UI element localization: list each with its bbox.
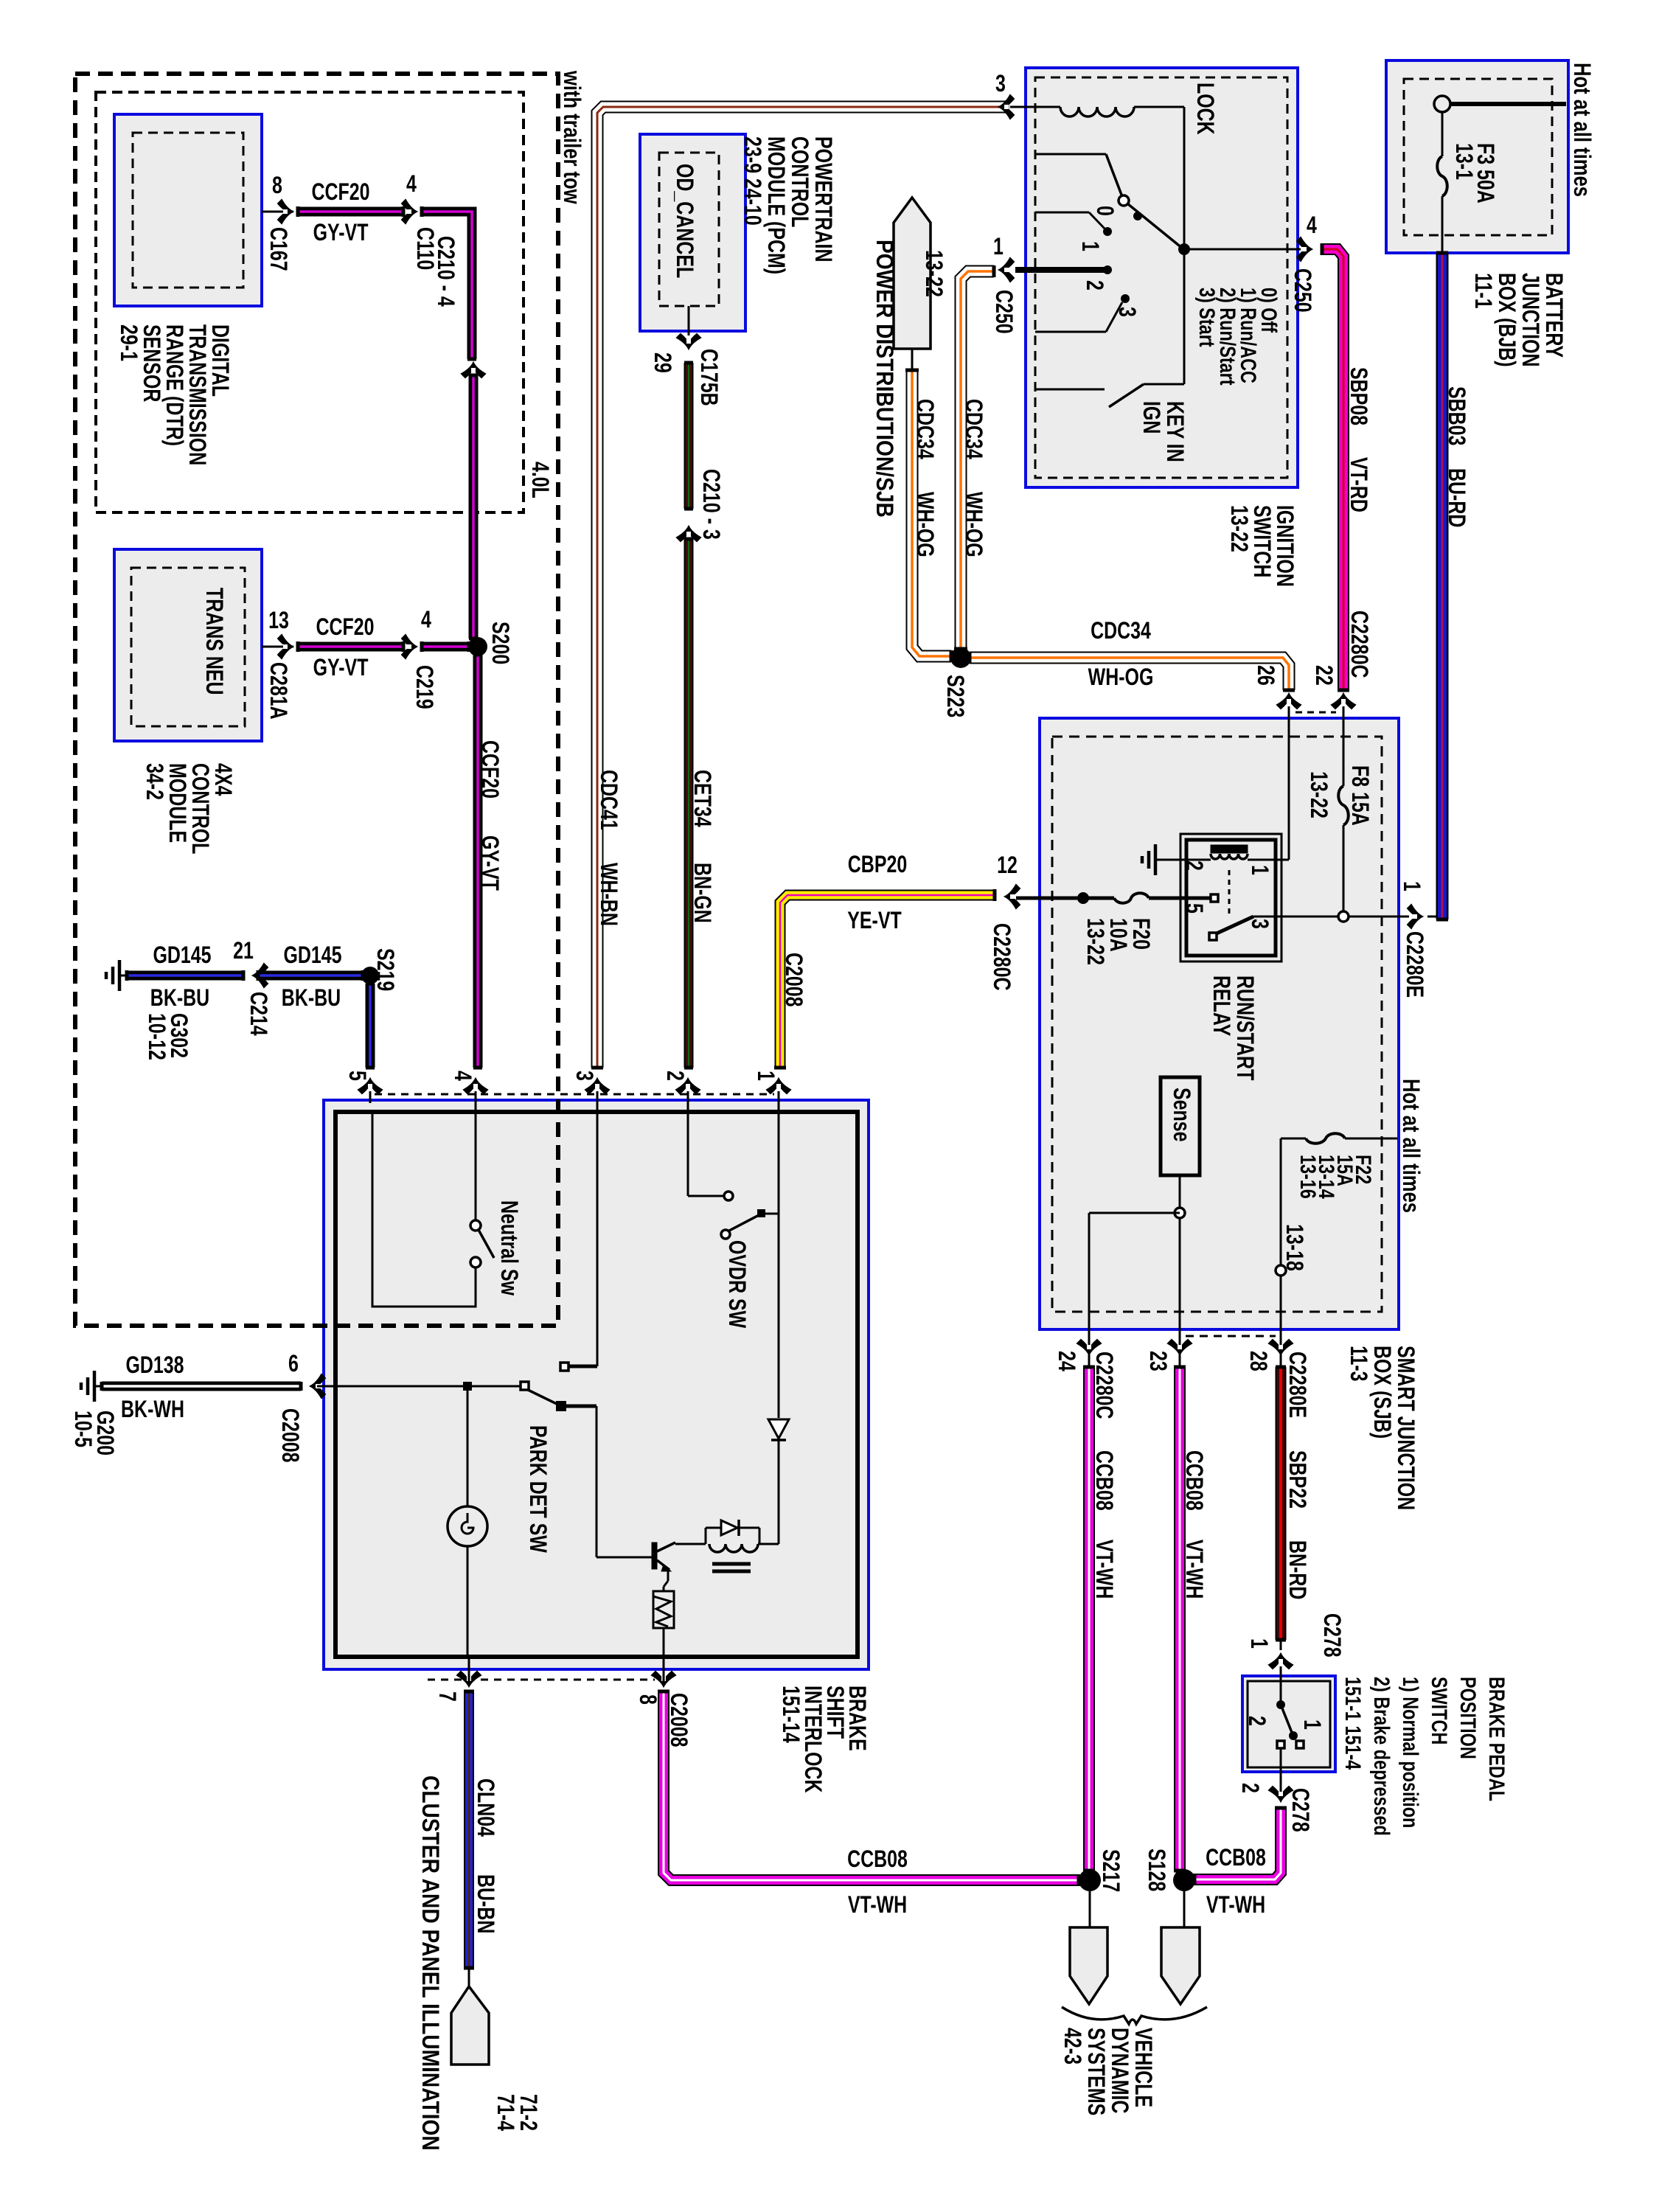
svg-text:BN-GN: BN-GN: [689, 863, 715, 923]
svg-text:1: 1: [1246, 865, 1273, 875]
dashed option box: 4.0L: [96, 92, 524, 512]
connector arrow C219: [402, 635, 417, 658]
ignition rotary wiper arm: [1106, 154, 1183, 248]
neutral switch arm: [479, 1230, 494, 1258]
svg-text:BATTERY: BATTERY: [1540, 273, 1567, 358]
wire GD145 BK-BU (C214 to S219): [258, 970, 363, 981]
svg-text:Hot at all times: Hot at all times: [1568, 63, 1594, 197]
svg-text:13-16: 13-16: [1295, 1155, 1320, 1199]
pin label 8: [634, 1694, 661, 1705]
svg-text:SMART JUNCTION: SMART JUNCTION: [1392, 1346, 1419, 1510]
wire: pin 5 into BSI: [369, 1091, 372, 1103]
svg-text:1: 1: [752, 1071, 779, 1081]
pin label 1 inside: [1298, 1719, 1325, 1730]
svg-text:2: 2: [1180, 860, 1207, 871]
svg-text:CDC34: CDC34: [960, 399, 987, 459]
lamp wire upper: [467, 1391, 469, 1507]
svg-text:C167: C167: [265, 227, 291, 271]
pin label 1: [1398, 881, 1425, 891]
wire label VT-WH: [848, 1892, 907, 1919]
svg-text:10-12: 10-12: [143, 1013, 170, 1060]
svg-text:13: 13: [268, 608, 289, 634]
svg-text:GY-VT: GY-VT: [313, 655, 369, 681]
connector label C214: [245, 992, 271, 1036]
blocking diode: [768, 1419, 789, 1440]
svg-text:C2280E: C2280E: [1401, 931, 1427, 998]
svg-text:6: 6: [288, 1351, 299, 1377]
position label 2: [1081, 280, 1107, 291]
wire: sense to pin 23: [1179, 1175, 1181, 1355]
svg-text:POSITION: POSITION: [1455, 1677, 1480, 1759]
label: Hot at all times: [1568, 63, 1594, 197]
connector label C278: [1318, 1613, 1345, 1658]
label: 13-22: [920, 250, 947, 297]
splice label S217: [1097, 1849, 1124, 1892]
svg-text:OD_CANCEL: OD_CANCEL: [671, 164, 698, 278]
wire: S217 tail: [1089, 1891, 1091, 1927]
wire: BPP pin 2 out: [1280, 1748, 1282, 1796]
relay pin label 1: [1246, 865, 1273, 875]
wire CDC34 WH-OG (S223 up to ignition C250 pin 1): [954, 265, 994, 649]
fuse label F3 50A 13-1: [1450, 143, 1498, 204]
svg-text:GD138: GD138: [125, 1352, 184, 1379]
fuse F8 15A: [1338, 786, 1349, 825]
legend: 0) Off 1) Run/ACC 2) Run/Start 3) Start: [1194, 288, 1281, 386]
wiper contact ring: [1119, 195, 1129, 206]
wire: pin 22 to fuse F8: [1343, 706, 1345, 786]
svg-text:BU-RD: BU-RD: [1443, 468, 1470, 527]
label: PARK DET SW: [524, 1425, 551, 1554]
connector arrow C210-4: [462, 363, 485, 378]
wire: resistor to pin 8: [663, 1628, 665, 1655]
wire label SBP22: [1284, 1450, 1310, 1509]
svg-text:Neutral Sw: Neutral Sw: [495, 1200, 522, 1296]
wire GD138 BK-WH (G200 to BSI pin 6): [102, 1382, 301, 1391]
svg-text:WH-OG: WH-OG: [1088, 664, 1154, 691]
label: POWERTRAIN CONTROL MODULE (PCM) 23-9 24-10: [739, 136, 836, 274]
resistor (solenoid dropping): [653, 1591, 674, 1628]
wire: fuse F3 to box edge: [1441, 196, 1444, 253]
svg-text:10-5: 10-5: [69, 1411, 96, 1447]
pin label 5: [344, 1071, 370, 1081]
label: BATTERY JUNCTION BOX (BJB) 11-1: [1470, 273, 1567, 367]
wire: arrow to SBB03: [1427, 916, 1437, 918]
wire label VT-WH: [1206, 1892, 1265, 1919]
park detect pivot contact: [521, 1382, 529, 1390]
svg-text:MODULE (PCM): MODULE (PCM): [762, 136, 789, 274]
wire: S128 tail: [1183, 1891, 1186, 1927]
BPP fixed contact 1: [1276, 1700, 1285, 1709]
svg-text:KEY IN: KEY IN: [1161, 401, 1188, 462]
connector arrow C2280C pin 24: [1077, 1340, 1101, 1354]
label: 4.0L: [526, 462, 553, 498]
wire: OVDR arm to solenoid line: [762, 1213, 779, 1215]
connector label C219: [411, 665, 437, 709]
wire: pin 6 feed line: [317, 1385, 522, 1388]
OVDR arm end contact: [757, 1209, 765, 1217]
wire: key-in switch feed: [1144, 249, 1184, 384]
svg-text:1: 1: [993, 234, 1004, 260]
connector arrow C2280C pin 22: [1332, 694, 1355, 709]
svg-text:13-22: 13-22: [1225, 505, 1252, 552]
connector label C250: [1289, 268, 1315, 313]
svg-text:VT-WH: VT-WH: [1180, 1540, 1207, 1599]
svg-text:34-2: 34-2: [141, 763, 167, 800]
label: 71-2 71-4: [492, 2094, 541, 2131]
park detect moving contact: [556, 1401, 566, 1411]
wire label CDC34: [1091, 618, 1151, 644]
svg-text:2: 2: [1081, 280, 1107, 291]
fuse label F22 15A 13-14 13-16: [1295, 1155, 1375, 1199]
svg-text:CCB08: CCB08: [1091, 1450, 1117, 1511]
splice S200: [468, 637, 487, 656]
splice pentagon (S217 feed): [1070, 1927, 1107, 2004]
wire: pin 4 into BSI: [475, 1091, 477, 1103]
wire: collector line to solenoid: [758, 1543, 779, 1545]
svg-text:with trailer tow: with trailer tow: [558, 70, 584, 204]
pin label 1: [752, 1071, 779, 1081]
svg-text:4.0L: 4.0L: [526, 462, 553, 498]
wire SBP22 BN-RD (pin 28 down to C278): [1276, 1367, 1286, 1640]
wire label CET34: [689, 770, 715, 827]
svg-text:CLN04: CLN04: [472, 1778, 498, 1837]
connector arrow C2280E pin 1: [1408, 905, 1422, 928]
wire label WH-OG: [1088, 664, 1154, 691]
svg-text:11-1: 11-1: [1470, 273, 1496, 309]
svg-text:C281A: C281A: [265, 662, 291, 720]
wire CCF20 GY-VT (C210-4 to S200): [469, 375, 478, 639]
wire CCF20 GY-VT (S200 down to BSI pin 4): [473, 655, 482, 1068]
wire: key-in stub: [1035, 389, 1105, 391]
connector arrow C2008 pin 1 (BSI top): [767, 1079, 790, 1093]
connector label C2280E: [1284, 1352, 1310, 1418]
wire CCF20 GY-VT (C110 corner down): [422, 206, 476, 359]
wire C2008 VT-WH (pin 8 to S217): [658, 1691, 1079, 1886]
svg-text:0: 0: [1091, 206, 1118, 216]
BPP switch arm: [1281, 1705, 1293, 1734]
svg-text:1) Normal position: 1) Normal position: [1398, 1677, 1422, 1828]
svg-text:GY-VT: GY-VT: [476, 835, 503, 891]
label: with trailer tow: [558, 70, 584, 204]
wire: ignition key-in chime coil lead: [1010, 106, 1060, 108]
svg-text:BOX (BJB): BOX (BJB): [1493, 273, 1520, 367]
wire label SBB03: [1443, 386, 1470, 445]
wire: BSI pin 7 out: [468, 1657, 470, 1683]
coil: key-in warning chime: [1060, 107, 1134, 116]
connector arrow C175B (pin 29): [677, 334, 700, 349]
wire: pin 12 to relay pin 5 (thick): [1016, 897, 1211, 900]
connector label C278: [1287, 1788, 1313, 1832]
pin label 2 (C278): [1237, 1783, 1263, 1793]
svg-text:CCB08: CCB08: [1206, 1845, 1266, 1871]
connector arrow (ignition pin 3): [999, 95, 1014, 119]
svg-text:BOX (SJB): BOX (SJB): [1368, 1346, 1395, 1439]
wire: pin 28 stub: [1280, 1355, 1282, 1367]
label: OD_CANCEL: [671, 164, 698, 278]
wire label WH-BN: [595, 863, 622, 926]
svg-text:SYSTEMS: SYSTEMS: [1082, 2028, 1109, 2115]
wire: emitter to resistor: [664, 1569, 668, 1591]
label: CLUSTER AND PANEL ILLUMINATION: [417, 1775, 443, 2151]
svg-text:CCF20: CCF20: [476, 740, 503, 799]
svg-text:WH-OG: WH-OG: [960, 492, 987, 557]
brace: vehicle dynamic systems: [1062, 2007, 1207, 2024]
connector label C250: [990, 290, 1017, 334]
wire label CCF20: [476, 740, 503, 799]
svg-text:IGN: IGN: [1138, 401, 1164, 434]
svg-text:C2280C: C2280C: [988, 923, 1015, 991]
pin label 4: [421, 607, 431, 633]
wire: solenoid right link: [759, 1528, 761, 1544]
relay coil core bar: [1211, 845, 1248, 853]
svg-text:151-1 151-4: 151-1 151-4: [1340, 1677, 1365, 1770]
wire GD145 BK-BU (G302 to C214): [127, 970, 243, 981]
svg-text:VT-WH: VT-WH: [1091, 1540, 1117, 1599]
pin label 7: [434, 1691, 460, 1702]
connector arrow C2008 pin 8: [652, 1672, 675, 1686]
pin label 24: [1053, 1351, 1079, 1371]
key-in switch arm: [1109, 384, 1144, 407]
connector arrow C167: [278, 200, 293, 223]
component box: ignition switch: [1026, 68, 1298, 487]
svg-text:VT-RD: VT-RD: [1345, 457, 1371, 512]
svg-text:26: 26: [1252, 665, 1279, 686]
junction circle on sense wire: [1175, 1208, 1185, 1218]
wire label CDC34: [911, 399, 938, 459]
wire SBP08 VT-RD (C250 pin 4 to SJB pin 22): [1322, 243, 1349, 690]
connector label C167: [265, 227, 291, 271]
connector label C2280C: [1346, 611, 1372, 678]
wire label GD138: [125, 1352, 184, 1379]
wire: fuse F8 down to relay output: [1343, 825, 1345, 917]
BPP moving contact: [1289, 1731, 1298, 1740]
svg-text:BN-RD: BN-RD: [1284, 1540, 1310, 1599]
pin label 12: [997, 852, 1018, 879]
svg-text:21: 21: [233, 938, 254, 964]
svg-text:CET34: CET34: [689, 770, 715, 827]
connector label C2280E: [1401, 931, 1427, 998]
svg-text:7: 7: [434, 1691, 460, 1702]
svg-text:PARK DET SW: PARK DET SW: [524, 1425, 551, 1554]
svg-text:2: 2: [1237, 1783, 1263, 1793]
ground G200: [81, 1371, 102, 1402]
pin label 13: [268, 608, 289, 634]
wire: pin 4 to neutral switch: [475, 1100, 477, 1221]
svg-text:C2280E: C2280E: [1284, 1352, 1310, 1418]
svg-text:CDC34: CDC34: [911, 399, 938, 459]
transistor emitter: [657, 1560, 671, 1571]
svg-text:28: 28: [1245, 1351, 1271, 1371]
svg-text:C219: C219: [411, 665, 437, 709]
label: Hot at all times (SJB): [1397, 1079, 1423, 1213]
svg-text:BRAKE PEDAL: BRAKE PEDAL: [1484, 1677, 1509, 1801]
svg-text:2: 2: [1243, 1716, 1270, 1726]
svg-text:BU-BN: BU-BN: [472, 1874, 498, 1933]
svg-text:5: 5: [344, 1071, 370, 1081]
wire: to cluster pentagon: [468, 1968, 470, 1988]
svg-text:GD145: GD145: [283, 942, 341, 969]
dashed connector line C2280 top: [1295, 712, 1336, 714]
wire label BK-BU: [150, 985, 209, 1012]
lamp wire lower: [467, 1546, 469, 1655]
fuse F20 10A: [1114, 893, 1149, 903]
pin label 23: [1144, 1351, 1171, 1371]
label: DIGITAL TRANSMISSION RANGE (DTR) SENSOR 29-1: [115, 324, 233, 465]
ground label G302 10-12: [143, 1013, 192, 1060]
svg-text:C2008: C2008: [780, 953, 807, 1007]
component box: battery junction box: [1386, 60, 1568, 253]
park detect throw contact: [560, 1363, 568, 1371]
wire CCB08 VT-WH (S128 to C278 pin 2): [1194, 1808, 1287, 1885]
wire CDC34 WH-OG (pentagon down to S223): [905, 370, 951, 662]
svg-text:C2008: C2008: [276, 1408, 303, 1463]
wire label VT-WH: [1091, 1540, 1117, 1599]
svg-text:VEHICLE: VEHICLE: [1130, 2028, 1156, 2107]
svg-text:YE-VT: YE-VT: [847, 908, 902, 934]
wire label VT-WH: [1180, 1540, 1207, 1599]
svg-text:2: 2: [661, 1071, 688, 1081]
relay pin label 3: [1246, 919, 1273, 929]
wire label CCB08: [1206, 1845, 1266, 1871]
wire label BK-BU: [282, 985, 341, 1012]
connector arrow C2280C pin 12: [1005, 885, 1020, 908]
connector label C210 - 3: [698, 469, 724, 540]
wire: solenoid left link: [705, 1528, 707, 1544]
splice S223: [950, 647, 971, 668]
wire: pin 3 into BSI: [597, 1091, 599, 1103]
fuse label 13-22: [1305, 771, 1332, 818]
relay pin label 5: [1180, 903, 1207, 914]
svg-text:WH-BN: WH-BN: [595, 863, 622, 926]
wire CDC41 WH-BN (ignition pin 3 to BSI pin 3): [591, 100, 1007, 1068]
wire: DTR pin 8 lead: [262, 211, 293, 213]
pin label 6: [288, 1351, 299, 1377]
dashed connector line C2008 bottom: [428, 1679, 655, 1681]
label: BRAKE PEDAL POSITION SWITCH legend: [1340, 1677, 1509, 1836]
dashed inner box of DTR sensor: [133, 133, 243, 288]
component box: brake shift interlock (fill): [324, 1100, 869, 1669]
svg-text:4: 4: [421, 607, 431, 633]
contact 3 bullet: [1121, 294, 1130, 303]
svg-text:CCF20: CCF20: [311, 179, 369, 206]
svg-text:S200: S200: [487, 622, 513, 664]
dashed connector line C2280 bottom: [1186, 1335, 1276, 1338]
svg-text:1: 1: [1398, 881, 1425, 891]
splice S219: [361, 967, 379, 984]
svg-text:23: 23: [1144, 1351, 1171, 1371]
label: OVDR SW: [723, 1240, 750, 1329]
svg-text:CCB08: CCB08: [1180, 1450, 1207, 1511]
wire: pin 2 to OVDR switch: [688, 1103, 723, 1196]
label: LOCK: [1192, 83, 1218, 135]
wire label SBP08: [1345, 367, 1371, 425]
wire: F22 feed from hot bus: [1345, 1138, 1397, 1140]
wire C175B segment (dark brown): [684, 363, 693, 509]
pin label 4: [449, 1071, 476, 1081]
wire: park det sw to transistor base: [565, 1406, 652, 1557]
dashed connector line C2008 top: [375, 1093, 774, 1096]
connector arrow C250 pin 4: [1297, 237, 1312, 261]
relay switch arm: [1217, 917, 1253, 933]
svg-text:CLUSTER AND PANEL ILLUMINATION: CLUSTER AND PANEL ILLUMINATION: [417, 1775, 443, 2151]
connector arrow C214: [253, 964, 268, 987]
svg-text:13-22: 13-22: [1305, 771, 1332, 818]
svg-text:S128: S128: [1143, 1848, 1169, 1891]
wire label GY-VT: [313, 220, 369, 246]
junction: F8 to relay output: [1338, 911, 1349, 922]
component box: digital transmission range sensor: [114, 114, 262, 306]
BPP pole contact: [1277, 1741, 1284, 1748]
pin label 3: [571, 1071, 597, 1081]
position label 0: [1091, 206, 1118, 216]
pin label 1 (C250): [993, 234, 1004, 260]
wire label GD145: [283, 942, 341, 969]
dashed inner box SJB: [1052, 737, 1382, 1312]
wire: LOCK contact line: [1035, 153, 1106, 156]
inner box BSI: [335, 1112, 858, 1657]
svg-text:13-22: 13-22: [920, 250, 947, 297]
pin label 29: [649, 352, 675, 373]
relay actuator dashed link: [1228, 870, 1231, 917]
component box: Sense: [1161, 1077, 1200, 1175]
splice symbol: power distribution feed: [894, 198, 931, 349]
connector label C175B: [695, 349, 722, 406]
wire CDC34 WH-OG (S223 to SJB pin 26): [970, 652, 1295, 690]
label 13-18: [1281, 1224, 1307, 1271]
svg-text:29: 29: [649, 352, 675, 373]
pin label 21: [233, 938, 254, 964]
svg-text:3: 3: [571, 1071, 597, 1081]
svg-text:8: 8: [272, 173, 282, 199]
wire label CBP20: [848, 852, 907, 878]
svg-text:JUNCTION: JUNCTION: [1517, 273, 1543, 367]
wire label CCB08: [847, 1846, 908, 1873]
wiper contact bullet: [1133, 212, 1142, 220]
connector arrow C2008 pin 2 (BSI top): [676, 1079, 700, 1093]
connector label C110: [411, 227, 438, 270]
connector arrow C278 pin 1: [1269, 1654, 1293, 1669]
relay pin label 2: [1180, 860, 1207, 871]
dashed inner box TRANS NEU: [131, 568, 245, 726]
connector arrow C2280E pin 28: [1269, 1340, 1293, 1354]
indicator lamp: [448, 1506, 487, 1546]
dashed option box: with trailer tow: [75, 74, 558, 1326]
svg-text:8: 8: [634, 1694, 661, 1705]
contact 0 bullet: [1103, 227, 1112, 236]
connector arrow C278 pin 2: [1269, 1787, 1293, 1801]
splice S128: [1173, 1869, 1195, 1891]
OVDR contact a: [724, 1192, 733, 1200]
svg-text:13-18: 13-18: [1281, 1224, 1307, 1271]
pin label 1 (C278): [1245, 1638, 1272, 1649]
ground G302: [106, 960, 127, 991]
svg-text:1: 1: [1298, 1719, 1325, 1730]
svg-text:OVDR SW: OVDR SW: [723, 1240, 750, 1329]
svg-text:4: 4: [449, 1071, 476, 1081]
splice label S219: [372, 948, 398, 991]
wire: pin 23 stub: [1179, 1355, 1181, 1367]
svg-text:C210 - 4: C210 - 4: [432, 236, 459, 307]
svg-text:LOCK: LOCK: [1192, 83, 1218, 135]
label: Neutral Sw: [495, 1200, 522, 1296]
svg-text:C250: C250: [1289, 268, 1315, 313]
wire: pin 24 stub: [1088, 1355, 1091, 1367]
connector arrow C2008 pin 6: [310, 1374, 325, 1398]
svg-text:3: 3: [1246, 919, 1273, 929]
wire label YE-VT: [847, 908, 902, 934]
fuse F22 15A: [1306, 1133, 1345, 1144]
wire: battery feed C250 pin 1 (thick): [1015, 267, 1105, 273]
